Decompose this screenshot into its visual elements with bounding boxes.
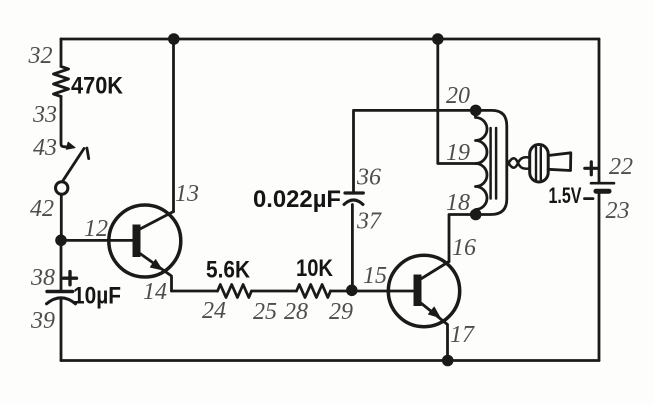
svg-text:17: 17	[450, 322, 475, 348]
resistor R 10K	[297, 285, 331, 298]
svg-text:33: 33	[32, 102, 57, 128]
transistor Q2 base bar	[414, 275, 422, 307]
node dot 18	[470, 209, 482, 221]
battery BT1 long plate	[591, 182, 614, 185]
svg-text:16: 16	[452, 235, 476, 261]
svg-text:1.5V: 1.5V	[549, 183, 582, 208]
svg-text:24: 24	[202, 298, 226, 324]
svg-text:18: 18	[446, 190, 470, 216]
svg-text:13: 13	[175, 181, 199, 207]
wire right rail upper	[598, 39, 601, 182]
transistor Q2 emitter lead	[422, 304, 448, 361]
wire node to Q1 base	[61, 239, 133, 242]
resistor R 5.6K	[218, 285, 252, 298]
wire Q1 collector to top rail	[172, 39, 175, 212]
wire capacitor to bottom rail	[60, 298, 63, 361]
wire 10K to Q2 base	[331, 290, 414, 293]
wire resistor to switch	[61, 97, 69, 148]
svg-text:28: 28	[284, 299, 308, 325]
svg-text:22: 22	[609, 154, 633, 180]
svg-text:29: 29	[329, 299, 353, 325]
battery plus sign	[585, 162, 598, 175]
wire node 18 to Q2 collector	[449, 215, 476, 262]
wire capacitor to node 20	[354, 110, 476, 193]
capacitor C 10uF curved plate	[47, 298, 76, 304]
resistor R 470K	[54, 67, 69, 97]
svg-text:0.022µF: 0.022µF	[253, 186, 341, 213]
switch S1 blade	[63, 149, 85, 182]
svg-text:36: 36	[356, 165, 381, 191]
switch S1 blade tick	[87, 148, 89, 159]
node dot top rail left	[168, 33, 180, 45]
svg-text:10K: 10K	[296, 255, 334, 282]
svg-text:19: 19	[446, 140, 470, 166]
svg-text:14: 14	[143, 279, 167, 305]
node dot top rail right	[432, 33, 444, 45]
node dot 29/15	[346, 285, 358, 297]
earphone LS1 inner lines	[536, 147, 541, 180]
node dot bottom rail	[442, 355, 454, 367]
earphone LS1 horn	[548, 153, 571, 171]
wire switch to node 12	[60, 195, 63, 241]
transistor Q1 base bar	[133, 225, 141, 258]
wire left rail upper	[60, 39, 63, 67]
battery BT1 short plate	[596, 189, 609, 194]
transistor Q2 circle	[388, 255, 459, 326]
earphone LS1 body	[530, 145, 549, 183]
svg-text:38: 38	[30, 265, 55, 291]
wire node 29 to capacitor C 0.022uF	[351, 205, 354, 291]
transformer T1 winding	[476, 110, 488, 214]
node dot 12/38	[55, 235, 67, 247]
capacitor C 10uF plus sign	[64, 272, 77, 285]
svg-text:10µF: 10µF	[73, 283, 121, 310]
svg-text:470K: 470K	[71, 73, 124, 100]
wire node to capacitor C 10uF	[60, 240, 63, 290]
wire top rail to tap 19	[438, 39, 477, 164]
battery minus sign	[585, 197, 594, 200]
transistor Q1 emitter arrow	[150, 260, 162, 270]
transistor Q2 collector lead	[422, 262, 450, 279]
transistor Q2 emitter arrow	[429, 307, 440, 317]
switch S1 contact circle	[56, 182, 68, 194]
capacitor C 10uF top plate	[47, 290, 73, 293]
svg-text:37: 37	[356, 209, 382, 235]
svg-text:42: 42	[30, 196, 54, 222]
transformer T1 core	[491, 128, 497, 199]
svg-text:25: 25	[253, 299, 277, 325]
node dot 20	[470, 105, 482, 117]
wire right rail lower	[598, 191, 601, 360]
wire top rail	[61, 38, 599, 41]
svg-text:15: 15	[363, 263, 387, 289]
wire bottom rail	[61, 359, 599, 362]
switch S1 arrow	[66, 142, 75, 149]
transistor Q1 emitter lead	[140, 254, 172, 292]
wire Q1 emitter to R 5.6K	[172, 290, 218, 293]
svg-text:39: 39	[30, 308, 55, 334]
capacitor C 0.022uF curved plate	[344, 200, 363, 205]
svg-text:20: 20	[446, 83, 470, 109]
svg-text:5.6K: 5.6K	[206, 257, 251, 284]
twisted pair to earphone	[507, 157, 530, 167]
svg-text:43: 43	[33, 135, 57, 161]
svg-text:23: 23	[606, 198, 630, 224]
svg-text:32: 32	[28, 43, 53, 69]
wire between resistors	[252, 290, 297, 293]
svg-text:12: 12	[84, 216, 108, 242]
transistor Q1 collector lead	[140, 212, 174, 230]
transistor Q1 circle	[109, 205, 181, 277]
transformer T1 outline to earphone	[476, 110, 507, 214]
capacitor C 0.022uF top plate	[345, 191, 363, 194]
